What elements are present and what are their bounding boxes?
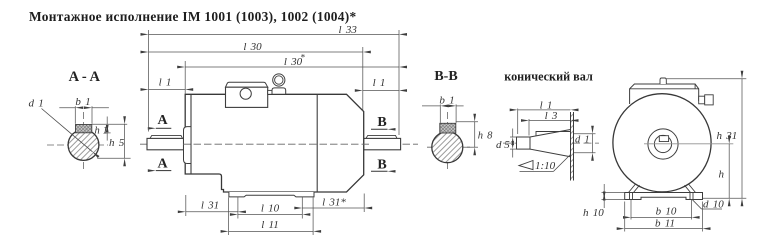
dimension b1 (B-B) xyxy=(422,95,464,123)
key B-B xyxy=(440,123,456,133)
taper 1:10 callout xyxy=(519,155,571,172)
svg-text:A: A xyxy=(157,156,168,171)
right shaft xyxy=(364,135,401,149)
wall (motor face) xyxy=(571,112,574,181)
svg-text:d 1: d 1 xyxy=(575,135,590,146)
dimension l11 xyxy=(229,219,314,231)
dimension l30* xyxy=(185,53,399,69)
shaft centerline xyxy=(140,143,418,145)
svg-text:A - A: A - A xyxy=(69,69,101,85)
dimension l31* xyxy=(302,197,364,209)
label конический вал xyxy=(504,70,593,84)
bearing boss left xyxy=(184,127,192,164)
dimension l33 xyxy=(149,24,400,36)
shaft circle front xyxy=(654,135,671,152)
shaft boss circle front xyxy=(648,129,678,159)
eyebolt tab front xyxy=(660,78,666,84)
dimension l10 xyxy=(238,203,302,215)
svg-text:l 10: l 10 xyxy=(261,203,280,215)
dimension l3 (cone) xyxy=(529,110,571,136)
extension lines b11 xyxy=(625,202,703,232)
svg-text:h: h xyxy=(719,169,725,181)
section arrow A bottom xyxy=(156,156,172,171)
svg-text:A: A xyxy=(157,113,168,128)
svg-text:l 1: l 1 xyxy=(373,77,386,89)
dimension h xyxy=(719,144,730,198)
section arrow B bottom xyxy=(371,157,388,172)
extension lines front right xyxy=(667,79,747,199)
dimension l31 xyxy=(186,199,238,212)
dimension b11 xyxy=(625,217,703,229)
dimension h5 (A-A) xyxy=(97,124,130,158)
axis centerline xyxy=(503,142,599,144)
center extension line front xyxy=(644,143,733,145)
svg-text:Монтажное исполнение IM 1001 (: Монтажное исполнение IM 1001 (1003), 100… xyxy=(29,9,356,24)
key on cone xyxy=(536,132,571,136)
base plate front xyxy=(625,193,703,200)
svg-text:b 1: b 1 xyxy=(439,95,454,107)
shaft section circle B-B xyxy=(432,132,463,163)
centerline vertical B-B xyxy=(447,112,449,170)
centerline horizontal B-B xyxy=(427,146,470,148)
left shaft xyxy=(147,135,184,149)
foot plate side view xyxy=(229,192,314,197)
dimension d5 xyxy=(496,129,517,158)
key notch front xyxy=(659,136,668,142)
dimension l1 right xyxy=(363,77,399,91)
dimension d1 leader (A-A) xyxy=(29,98,93,152)
shaft section circle A-A xyxy=(68,125,99,161)
svg-text:d 1: d 1 xyxy=(29,98,44,110)
foot gussets xyxy=(629,184,696,193)
title xyxy=(29,9,356,24)
svg-text:B: B xyxy=(377,157,386,172)
cone xyxy=(530,130,571,157)
dimension h8 (B-B) xyxy=(456,122,493,147)
gland stub front xyxy=(699,95,714,105)
svg-text:d 5: d 5 xyxy=(496,139,510,151)
svg-text:l 30: l 30 xyxy=(243,41,262,53)
dimension l1 left xyxy=(149,76,186,89)
conduit stub xyxy=(268,90,273,94)
dimension h10 xyxy=(583,184,625,219)
svg-text:B-B: B-B xyxy=(434,69,457,84)
dimension h31 xyxy=(717,79,743,199)
section arrow B top xyxy=(371,115,388,130)
svg-text:l 31*: l 31* xyxy=(322,197,346,209)
svg-text:конический вал: конический вал xyxy=(504,70,593,84)
shaft stub xyxy=(517,137,531,149)
section arrow A top xyxy=(156,113,172,128)
dimension l1 (cone) xyxy=(518,99,571,134)
svg-text:l 3: l 3 xyxy=(545,110,558,122)
end shield inner line left xyxy=(190,94,192,174)
label A - A xyxy=(69,69,101,85)
extension lines top xyxy=(149,30,400,135)
eyebolt xyxy=(272,74,286,94)
terminal box xyxy=(226,82,268,107)
svg-text:b 1: b 1 xyxy=(75,96,90,108)
dimension d10 leader xyxy=(693,199,725,211)
end shield joint line right xyxy=(316,94,318,192)
svg-text:l 11: l 11 xyxy=(261,219,279,231)
mounting hole slots front xyxy=(630,193,694,200)
svg-text:*: * xyxy=(300,53,305,63)
svg-text:l 1: l 1 xyxy=(159,76,172,88)
svg-text:1:10: 1:10 xyxy=(535,160,556,172)
svg-text:b 11: b 11 xyxy=(655,217,675,229)
motor front circle xyxy=(613,94,711,192)
motor body outline xyxy=(185,94,364,192)
dimension b10 xyxy=(631,206,692,218)
svg-text:B: B xyxy=(377,115,386,130)
dimension l30 xyxy=(149,41,363,53)
centerline horizontal A-A xyxy=(47,144,108,146)
svg-text:h 10: h 10 xyxy=(583,207,604,219)
label B-B xyxy=(434,69,457,84)
dimension b1 (A-A) xyxy=(59,96,109,124)
hole centerline extensions front xyxy=(631,200,692,220)
svg-text:h 8: h 8 xyxy=(478,131,493,142)
svg-text:b 10: b 10 xyxy=(656,206,677,218)
svg-text:h 31: h 31 xyxy=(717,130,738,142)
dimension h1 (A-A) xyxy=(92,117,127,141)
svg-text:h 5: h 5 xyxy=(109,137,125,149)
svg-text:h 1: h 1 xyxy=(95,126,108,137)
extension lines bottom xyxy=(186,194,364,236)
centerline vertical A-A xyxy=(83,112,85,172)
dimension d1 (cone) xyxy=(574,134,596,153)
svg-text:l 33: l 33 xyxy=(339,24,358,36)
svg-text:l 31: l 31 xyxy=(201,199,219,211)
terminal box front xyxy=(630,84,699,104)
centerline over body xyxy=(183,143,370,145)
